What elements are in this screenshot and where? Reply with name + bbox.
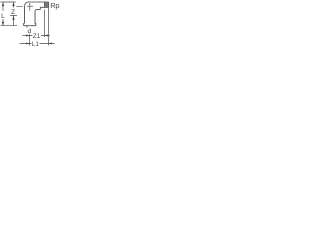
svg-text:Rp: Rp: [50, 1, 59, 10]
centerlines: [16, 3, 33, 11]
right press bead: [34, 23, 37, 26]
fitting right end face: [48, 2, 50, 7]
Z dimension line: [13, 2, 15, 25]
svg-text:Z1: Z1: [33, 33, 41, 40]
top reference line + fitting top edge: [1, 1, 49, 3]
Z1 left arrow: [26, 34, 29, 36]
L1 right arrow: [49, 42, 52, 44]
Z top arrow: [12, 2, 14, 6]
L dimension line: [2, 2, 4, 25]
thread plane line: [44, 2, 46, 7]
svg-text:L1: L1: [32, 41, 40, 48]
L top arrow: [2, 2, 4, 6]
bottom reference line: [1, 25, 18, 27]
d leader: [26, 26, 28, 28]
inner corner fillet: [34, 10, 37, 12]
outer corner arc: [25, 2, 29, 7]
horizontal centerline: [16, 5, 33, 7]
vertical leg right edge: [34, 12, 36, 23]
Z mid arrow: [12, 16, 14, 20]
svg-text:Z: Z: [11, 9, 15, 16]
vertical leg left edge: [24, 7, 26, 23]
vertical centerline stub: [29, 3, 31, 11]
left press bead: [23, 23, 26, 26]
Z1 right arrow: [45, 34, 48, 36]
body bottom edge: [36, 9, 41, 11]
thread muff bottom edge: [40, 6, 48, 8]
labels: [1, 1, 59, 48]
Z1 dimension line: [23, 35, 51, 37]
L1 left arrow: [26, 42, 29, 44]
arrowheads: [2, 2, 52, 44]
svg-text:L: L: [1, 13, 5, 20]
mid tick (insertion plane): [10, 15, 17, 17]
dimension extension lines: [1, 7, 49, 45]
svg-text:d: d: [28, 28, 32, 35]
thread plane extension: [44, 10, 46, 38]
right end extension: [48, 7, 50, 45]
axis extension below: [29, 34, 31, 46]
shoulder step: [39, 7, 41, 9]
socket bottom edge: [24, 25, 36, 27]
L1 dimension line: [20, 43, 55, 45]
thread hatch: [46, 2, 48, 7]
L bottom arrow: [2, 22, 4, 26]
